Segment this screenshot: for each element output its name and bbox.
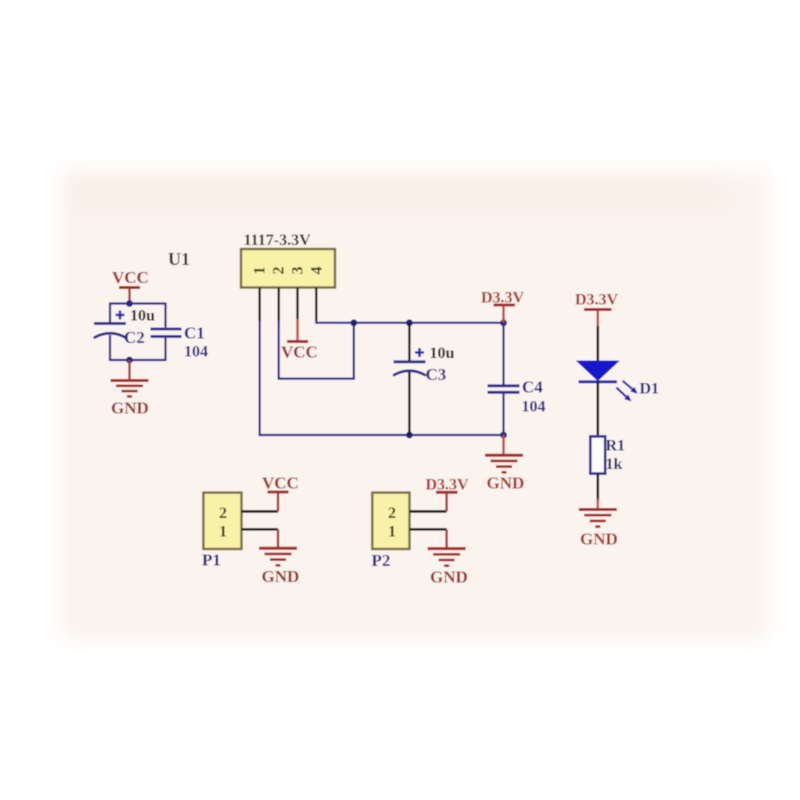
- svg-text:VCC: VCC: [262, 474, 299, 493]
- wire: bottom rail (GND side): [260, 434, 504, 436]
- wire: red stub to ground (R1): [597, 499, 599, 510]
- wire: C1 top pin: [164, 303, 166, 328]
- svg-text:U1: U1: [168, 249, 190, 269]
- svg-text:3: 3: [290, 267, 307, 275]
- svg-text:2: 2: [219, 505, 227, 522]
- ground GND (below C2): [111, 381, 149, 418]
- wire: D3.3V to LED anode: [596, 326, 599, 362]
- capacitor C4 bottom pin: [502, 394, 504, 436]
- junction: pin2 loop joins output rail: [350, 319, 357, 326]
- svg-text:1k: 1k: [606, 456, 623, 473]
- node: GND junction below C2/C1: [126, 357, 133, 364]
- IC U1 1117-3.3V regulator body: [241, 249, 335, 288]
- junction: C3 top: [406, 319, 413, 326]
- wire: U1 pin2 loop to output rail: [279, 320, 354, 379]
- wire: bottom of C2/C1 loop: [110, 359, 166, 361]
- ground GND (P2): [428, 529, 468, 586]
- svg-text:GND: GND: [430, 568, 468, 587]
- svg-text:2: 2: [271, 267, 288, 275]
- U1 pin 3: [296, 288, 298, 320]
- LED D1 (diode body): [577, 361, 619, 382]
- svg-text:P2: P2: [372, 551, 391, 570]
- capacitor C3 (10u polarized): [393, 348, 426, 376]
- svg-text:C2: C2: [124, 328, 145, 347]
- svg-text:4: 4: [309, 267, 326, 275]
- wire: C2 top pin: [109, 303, 111, 323]
- wire: stub to ground: [128, 360, 130, 380]
- svg-text:R1: R1: [606, 438, 626, 455]
- power port VCC (input, above C2): [112, 268, 149, 304]
- P1 pin 1: [242, 528, 279, 531]
- paper tint: [62, 171, 767, 640]
- svg-text:1117-3.3V: 1117-3.3V: [244, 232, 312, 249]
- svg-text:D3.3V: D3.3V: [575, 292, 619, 309]
- svg-text:GND: GND: [487, 474, 525, 493]
- svg-text:1: 1: [219, 524, 227, 541]
- capacitor C3 bottom pin: [408, 372, 410, 435]
- P1 pin 2: [242, 510, 279, 513]
- junction: C4 bottom / GND: [500, 432, 507, 439]
- wire: stub to ground below C4: [502, 435, 504, 455]
- capacitor C4 top pin: [502, 323, 504, 385]
- svg-text:GND: GND: [262, 567, 300, 586]
- svg-text:VCC: VCC: [112, 268, 149, 287]
- U1 pin 4: [315, 288, 317, 322]
- power port D3.3V (above LED D1): [575, 292, 619, 328]
- svg-text:10u: 10u: [130, 308, 155, 325]
- svg-text:C1: C1: [184, 324, 205, 343]
- wire: top of C2/C1 loop: [110, 302, 166, 304]
- svg-text:GND: GND: [580, 530, 618, 549]
- power port VCC (U1 pin 3): [281, 319, 318, 362]
- wire: C2 bottom pin: [109, 335, 111, 361]
- svg-text:10u: 10u: [430, 345, 455, 362]
- wire: LED cathode to R1: [596, 382, 599, 437]
- svg-text:1: 1: [252, 267, 269, 275]
- svg-text:104: 104: [184, 344, 208, 361]
- connector P1 body: [203, 493, 241, 549]
- svg-text:D1: D1: [640, 381, 660, 398]
- wire: R1 to ground: [596, 474, 599, 501]
- ground GND (P1): [259, 529, 299, 586]
- svg-text:C3: C3: [426, 365, 447, 384]
- capacitor C2 (10u polarized): [94, 311, 127, 339]
- U1 pin 1: [258, 288, 260, 322]
- P2 pin 2: [410, 510, 447, 513]
- svg-text:104: 104: [522, 399, 546, 416]
- power port D3.3V (above C4): [481, 290, 525, 323]
- node: VCC junction above C2/C1: [126, 300, 133, 307]
- capacitor C3 top pin: [408, 323, 410, 361]
- P2 pin 1: [410, 528, 447, 531]
- svg-text:2: 2: [388, 505, 396, 522]
- connector P2 body: [372, 493, 409, 549]
- U1 pin 2: [278, 288, 280, 322]
- svg-text:P1: P1: [202, 551, 221, 570]
- svg-text:1: 1: [388, 524, 396, 541]
- junction: C3 bottom: [406, 432, 413, 439]
- power port VCC (P1): [262, 474, 299, 512]
- junction: C4 top / D3.3V: [500, 319, 507, 326]
- wire: U1 pin4 to output rail (top rail): [316, 320, 503, 323]
- resistor R1: [590, 436, 605, 473]
- svg-text:VCC: VCC: [281, 343, 318, 362]
- capacitor C4 (104): [488, 386, 520, 393]
- ground GND (below R1): [579, 510, 618, 549]
- svg-text:C4: C4: [522, 378, 543, 397]
- wire: U1 pin1 down to bottom rail: [259, 320, 261, 436]
- ground GND (below C4): [485, 455, 524, 492]
- wire: C1 bottom pin: [164, 338, 166, 361]
- svg-text:D3.3V: D3.3V: [426, 477, 470, 494]
- LED D1 light arrows: [616, 381, 637, 402]
- power port D3.3V (P2): [426, 477, 470, 512]
- svg-text:GND: GND: [111, 399, 149, 418]
- capacitor C1 (104): [151, 329, 182, 337]
